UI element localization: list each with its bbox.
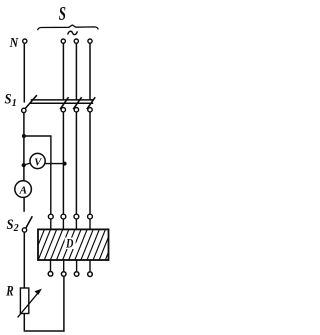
wire L1 below S1	[62, 112, 64, 214]
stub terminal 1 to box	[50, 219, 52, 229]
stub box to bottom terminal 1	[50, 260, 52, 271]
switch S1 pole 2 hinge	[74, 108, 78, 112]
stub box to bottom terminal 4	[89, 260, 91, 272]
switch S1 pole 2 blade	[73, 97, 81, 109]
voltmeter V	[30, 153, 45, 168]
wire N below S1	[23, 113, 25, 182]
wire A to S2	[23, 197, 25, 212]
motor terminal 2 top	[61, 214, 66, 219]
switch S1 pole N blade	[25, 95, 37, 109]
switch S1 pole 3 blade	[87, 97, 95, 109]
AC tilde	[68, 31, 78, 34]
switch S1 pole N hinge	[22, 108, 26, 112]
wire S2 to rheostat	[23, 232, 25, 288]
motor terminal 1 bottom	[48, 272, 53, 277]
wire L2 below S1	[75, 112, 77, 214]
wire N vertical upper	[23, 43, 25, 102]
svg-text:1: 1	[12, 98, 17, 109]
stub terminal 4 to box	[89, 219, 91, 229]
wire V to phase node	[45, 163, 65, 165]
switch S2 blade	[26, 216, 33, 228]
switch S1 gang bar lower	[30, 102, 93, 104]
wire bottom horizontal	[24, 330, 65, 332]
wire rheostat to bottom	[23, 314, 25, 331]
svg-text:V: V	[34, 157, 42, 168]
motor terminal 3 top	[74, 214, 79, 219]
svg-text:N: N	[9, 36, 19, 51]
rheostat R body	[20, 288, 28, 314]
terminal N	[23, 39, 27, 43]
terminal L2	[74, 39, 78, 43]
switch S1 gang bar upper	[31, 99, 94, 101]
switch S1 pole 3 hinge	[88, 108, 92, 112]
switch S2 hinge	[22, 228, 26, 232]
node on L1 line	[63, 162, 67, 166]
wire N to riser	[24, 136, 51, 164]
wire V stub to N line	[25, 163, 31, 165]
motor terminal 4 top	[88, 214, 93, 219]
stub terminal 2 to box	[62, 219, 64, 229]
wire L3 below S1	[89, 112, 91, 214]
svg-text:R: R	[6, 283, 14, 299]
svg-text:S: S	[5, 92, 12, 108]
svg-text:D: D	[65, 236, 74, 251]
motor terminal 2 bottom	[61, 272, 66, 277]
svg-text:A: A	[19, 185, 27, 197]
stub box to bottom terminal 2	[63, 260, 65, 272]
svg-text:2: 2	[13, 223, 19, 234]
wire up to motor terminal	[63, 276, 65, 331]
wire riser down to motor terminal	[50, 164, 52, 214]
terminal L1	[61, 39, 65, 43]
stub box to bottom terminal 3	[76, 260, 78, 272]
rheostat R arrow	[18, 292, 39, 318]
switch S1 pole 1 blade	[60, 97, 68, 109]
brace over supply	[38, 25, 99, 30]
svg-text:S: S	[7, 217, 14, 233]
wire L1 vertical upper	[62, 43, 64, 100]
motor terminal 4 bottom	[88, 272, 93, 277]
motor terminal 1 top	[48, 214, 53, 219]
motor D box	[32, 228, 119, 262]
stub terminal 3 to box	[75, 219, 77, 229]
node on N line at V	[22, 163, 26, 167]
terminal L3	[88, 39, 92, 43]
svg-text:S: S	[59, 3, 66, 25]
motor label D halo	[65, 238, 76, 249]
motor terminal 3 bottom	[74, 272, 79, 277]
wire L2 vertical upper	[75, 43, 77, 100]
switch S1 pole 1 hinge	[61, 108, 65, 112]
ammeter A	[15, 181, 32, 198]
node on N line	[22, 134, 26, 138]
wire L3 vertical upper	[89, 43, 91, 100]
